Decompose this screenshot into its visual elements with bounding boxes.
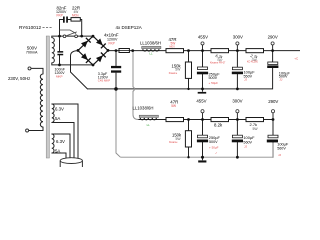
node bridge bottom	[92, 64, 95, 67]
capacitor 100uF bottom right	[267, 135, 289, 157]
node ground cap2 top	[236, 88, 239, 91]
wire secondary top lead to bridge top	[52, 36, 93, 38]
resistor 150k bottom bleeder	[169, 131, 192, 147]
wire gray ground down-feed	[116, 89, 120, 157]
node bridge left	[77, 49, 80, 52]
transformer primary winding	[40, 74, 43, 127]
wire 300V-b cap2b drop	[236, 120, 238, 158]
capacitor 250uF top	[197, 67, 220, 85]
svg-text:LL1038/6H: LL1038/6H	[140, 40, 161, 45]
leader dashes RY610012	[43, 27, 54, 29]
wire 290V cap3 drop	[272, 51, 274, 62]
node fuse right	[131, 49, 134, 52]
svg-text:MKP: MKP	[56, 74, 63, 78]
svg-text:8.2k: 8.2k	[214, 123, 223, 128]
svg-text:700mA: 700mA	[26, 51, 38, 55]
wire bottom B+ rail	[139, 119, 274, 121]
svg-text:5W: 5W	[171, 41, 176, 45]
switch S1	[59, 30, 77, 38]
terminal 230V line 2	[26, 129, 29, 132]
svg-text:560V: 560V	[277, 147, 286, 151]
node 150k top tap	[187, 49, 190, 52]
node 290V tap	[271, 49, 274, 52]
wire primary terminal 2	[29, 127, 43, 131]
node ground 150k top	[187, 88, 189, 90]
transformer heater winding 1	[52, 104, 54, 122]
capacitor 3.3uF 1200V	[98, 66, 121, 83]
node 300V bottom	[232, 99, 242, 120]
node 290V bottom	[268, 99, 278, 120]
svg-text:JJ: JJ	[278, 153, 282, 157]
node bridge top	[92, 35, 95, 38]
inductor L1 top LL1038/6H	[140, 40, 161, 55]
resistor 2.7k bottom	[246, 118, 264, 131]
wire heater winding 1 bottom lead	[52, 123, 74, 159]
node bridge right	[107, 49, 110, 52]
svg-text:FKP: FKP	[57, 14, 63, 18]
bridge rectifier 4x DSEP12A	[78, 36, 108, 65]
node secondary bottom	[58, 64, 61, 67]
node 300V top	[233, 34, 243, 50]
wire top ground rail	[87, 68, 272, 89]
resistor 6.2k top	[210, 49, 229, 65]
wire 150k bottom stubs	[188, 120, 190, 158]
node 300V tap	[236, 49, 239, 52]
svg-text:Kiwame PR-07: Kiwame PR-07	[210, 62, 226, 64]
svg-text:+ 50µF: + 50µF	[209, 145, 219, 149]
svg-text:KO AC500: KO AC500	[247, 61, 259, 64]
wire 455V cap1 drop	[202, 51, 204, 89]
wire 3.3uF vertical	[115, 51, 117, 89]
svg-text:455V: 455V	[196, 99, 206, 104]
svg-text:300V: 300V	[232, 99, 242, 104]
wire 300V cap2 drop	[236, 51, 238, 89]
svg-text:300V: 300V	[233, 34, 243, 39]
svg-text:5A: 5A	[55, 116, 60, 121]
capacitor 100uF top right	[267, 62, 290, 81]
wire heater winding 2 top lead	[52, 134, 70, 158]
terminal 230V line 1	[28, 67, 31, 70]
svg-text:230V, 50Hz: 230V, 50Hz	[8, 76, 30, 81]
diode D3 bottom-left	[81, 53, 91, 63]
node ground 150k bottom	[187, 156, 189, 158]
wire secondary bottom lead to bridge bottom	[52, 63, 93, 65]
svg-text:JJ: JJ	[244, 145, 248, 149]
svg-text:JJ: JJ	[244, 78, 248, 82]
node 300V-b tap	[236, 118, 239, 121]
svg-text:100µF: 100µF	[243, 135, 255, 140]
transformer HV secondary winding	[52, 38, 55, 63]
diode D1 top-left	[81, 38, 91, 48]
tube envelope	[60, 158, 82, 167]
node ground cap1 bottom	[201, 156, 204, 159]
svg-text:✓: ✓	[215, 151, 218, 155]
resistor 8.2k bottom	[211, 118, 229, 128]
transformer core	[46, 36, 49, 158]
wire 290V-b cap3b drop	[272, 120, 274, 158]
node 455V bottom	[196, 99, 206, 120]
node 3.3uF tap	[115, 49, 118, 52]
resistor 47R bottom	[166, 99, 184, 121]
node ground cap2 bottom	[236, 156, 239, 159]
inductor L2 bottom LL1038/6H	[133, 106, 159, 128]
wire gray bottom ground rail	[120, 143, 273, 158]
node secondary top	[58, 35, 61, 38]
svg-text:LL1038/6H: LL1038/6H	[133, 106, 154, 111]
resistor 22R snubber	[71, 5, 80, 21]
svg-text:5W: 5W	[253, 127, 259, 131]
svg-text:FKP: FKP	[109, 42, 115, 46]
node 290V-b tap	[272, 118, 275, 121]
svg-text:JJ: JJ	[279, 77, 283, 81]
svg-text:5W: 5W	[171, 104, 176, 108]
svg-text:500V: 500V	[209, 76, 218, 80]
capacitor 100nF across secondary	[55, 51, 66, 78]
node 150k bottom tap	[187, 118, 190, 121]
node ground big	[114, 87, 118, 91]
wire 455V-b cap1b drop	[202, 120, 204, 158]
node snubber right	[80, 35, 83, 38]
svg-text:290V: 290V	[268, 34, 278, 39]
wire top B+ rail	[108, 50, 300, 52]
wire heater winding 2 bottom lead	[52, 153, 66, 159]
fuse F1	[119, 49, 129, 53]
svg-text:MOX: MOX	[170, 46, 176, 48]
svg-text:455V: 455V	[198, 35, 208, 40]
node 455V top	[198, 35, 208, 51]
ground symbol top	[198, 89, 207, 94]
node 455V-b tap	[201, 118, 204, 121]
svg-text:5A: 5A	[55, 148, 60, 153]
svg-text:Kiwame: Kiwame	[169, 141, 178, 144]
svg-text:4x DSEP12A: 4x DSEP12A	[116, 25, 142, 30]
wire primary terminal 1	[31, 68, 43, 74]
wire heater winding 1 top lead	[52, 104, 78, 158]
capacitor 100uF bottom mid	[232, 135, 255, 149]
svg-text:6.3V: 6.3V	[56, 139, 65, 144]
svg-text:6.3V: 6.3V	[55, 107, 64, 112]
svg-text:LL: LL	[147, 123, 151, 127]
capacitor 82nF snubber	[56, 5, 68, 22]
diode D2 top-right	[96, 39, 106, 49]
resistor 150k top bleeder	[169, 62, 192, 78]
svg-text:LL: LL	[149, 52, 153, 56]
node ground cap1 top	[201, 88, 204, 91]
svg-text:C4S MKP: C4S MKP	[98, 79, 110, 83]
transformer heater winding 2	[52, 134, 54, 153]
svg-text:MOx: MOx	[72, 14, 79, 18]
diode D4 bottom-right	[96, 53, 106, 63]
svg-text:+ 50µF: + 50µF	[209, 81, 219, 85]
ground symbol bottom	[198, 157, 206, 162]
wire gray B+ feed to bottom chain with hop	[133, 51, 139, 120]
resistor 47R top	[166, 37, 184, 53]
svg-text:500V: 500V	[209, 140, 218, 144]
wire 100nF branch vertical	[59, 36, 61, 65]
resistor 2.7k top	[246, 49, 264, 64]
wire bridge left corner to ground rail diagonal	[71, 51, 88, 89]
wire snubber left vertical	[59, 20, 61, 37]
svg-text:RY610012: RY610012	[19, 25, 41, 30]
capacitor 100uF top mid	[232, 67, 255, 82]
node 455V tap	[201, 49, 204, 52]
wire snubber cap to resistor	[60, 20, 82, 37]
svg-text:290V: 290V	[268, 99, 278, 104]
capacitor 250uF bottom	[197, 135, 221, 155]
wire 150k top stubs	[188, 51, 190, 89]
node 290V top	[268, 34, 278, 50]
svg-text:Kiwame: Kiwame	[169, 72, 178, 75]
svg-text:500V: 500V	[27, 45, 37, 50]
